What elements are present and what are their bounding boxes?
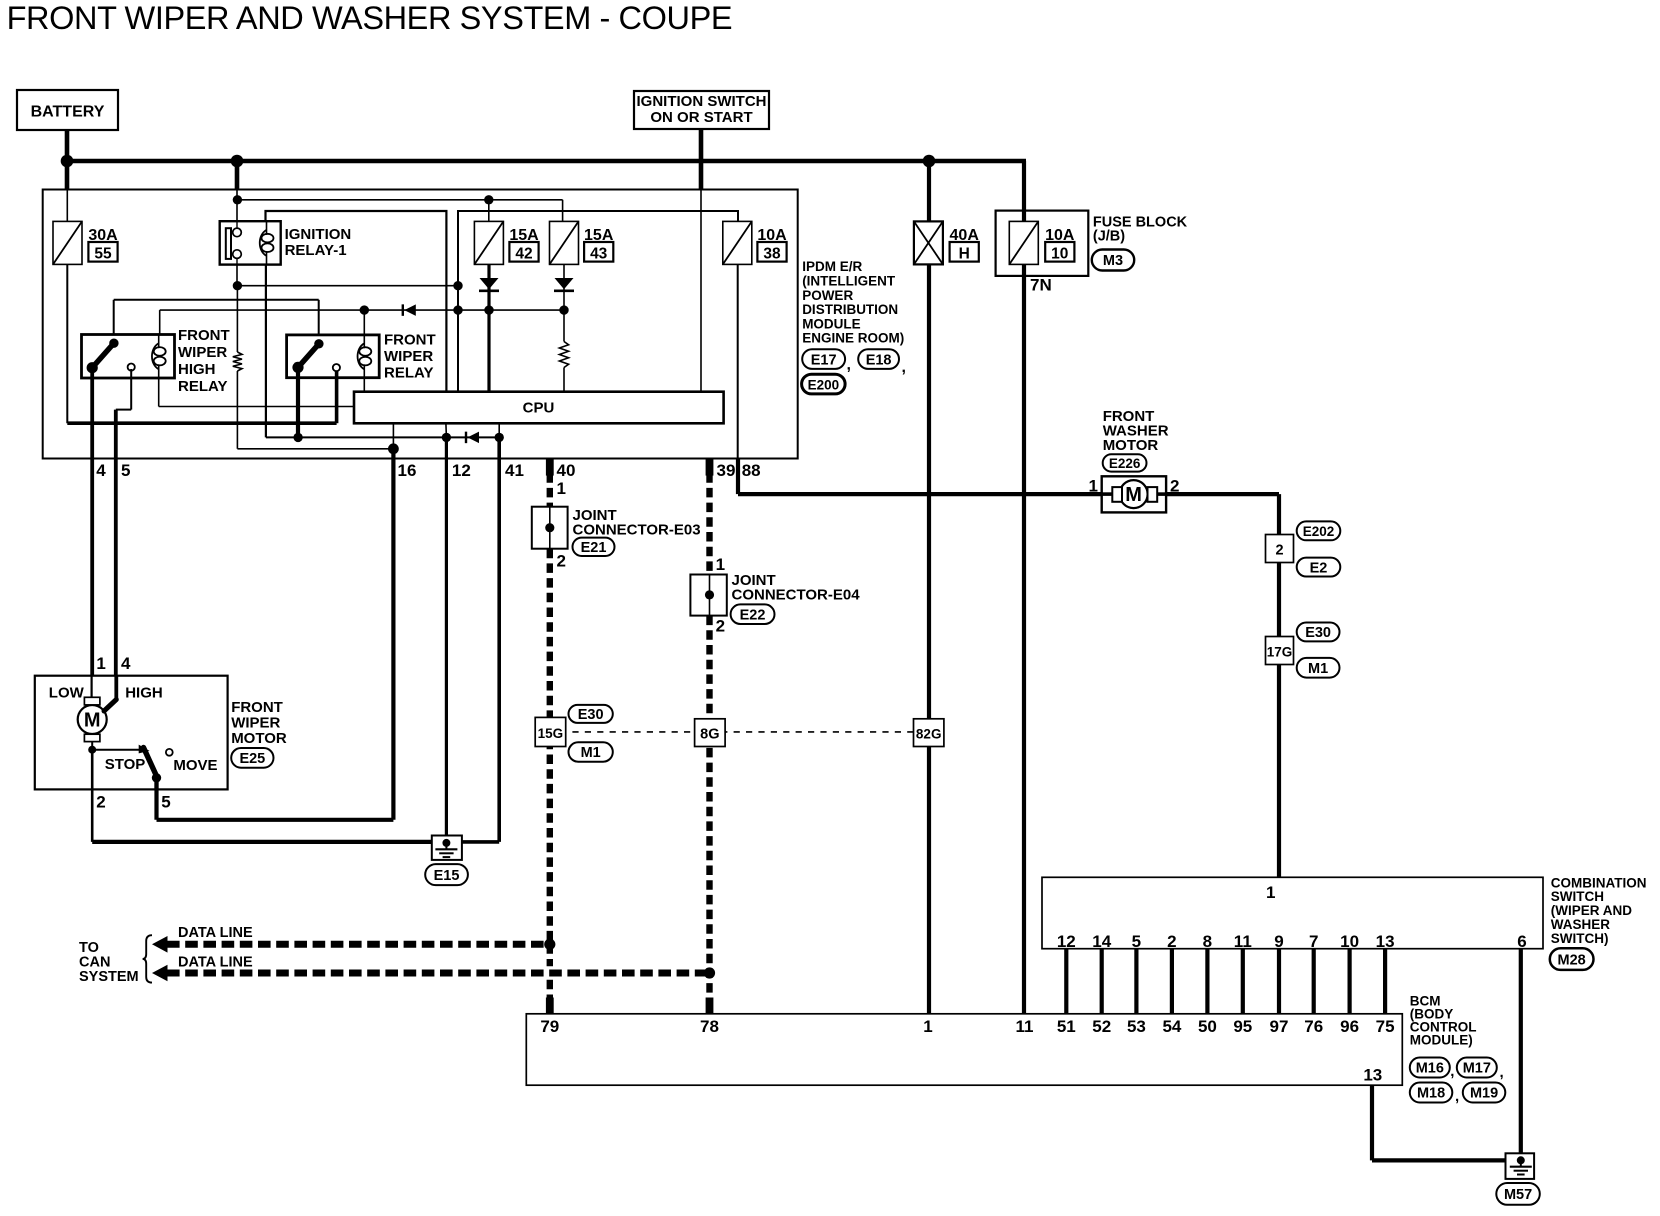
svg-text:,: , bbox=[1455, 1088, 1459, 1105]
svg-text:1: 1 bbox=[716, 555, 725, 574]
svg-text:38: 38 bbox=[763, 246, 781, 263]
svg-text:LOW: LOW bbox=[49, 685, 85, 702]
svg-text:97: 97 bbox=[1270, 1017, 1289, 1036]
svg-text:(J/B): (J/B) bbox=[1093, 229, 1125, 245]
svg-text:M18: M18 bbox=[1417, 1086, 1445, 1102]
svg-text:1: 1 bbox=[923, 1017, 932, 1036]
svg-text:E17: E17 bbox=[811, 352, 837, 368]
svg-text:CPU: CPU bbox=[523, 400, 555, 417]
svg-text:E202: E202 bbox=[1303, 524, 1335, 539]
svg-text:76: 76 bbox=[1304, 1017, 1323, 1036]
svg-text:M1: M1 bbox=[581, 745, 601, 761]
svg-text:15G: 15G bbox=[538, 726, 564, 741]
svg-text:(WIPER AND: (WIPER AND bbox=[1551, 903, 1632, 918]
svg-text:,: , bbox=[1450, 1063, 1454, 1080]
svg-text:(INTELLIGENT: (INTELLIGENT bbox=[802, 274, 896, 289]
svg-text:RELAY: RELAY bbox=[178, 378, 227, 395]
svg-text:11: 11 bbox=[1016, 1017, 1034, 1036]
svg-text:75: 75 bbox=[1376, 1017, 1395, 1036]
svg-text:MOTOR: MOTOR bbox=[231, 730, 287, 747]
svg-text:IPDM E/R: IPDM E/R bbox=[802, 259, 862, 274]
svg-text:FRONT: FRONT bbox=[384, 332, 436, 349]
svg-text:FRONT: FRONT bbox=[231, 699, 283, 716]
svg-text:5: 5 bbox=[1132, 932, 1141, 951]
svg-text:DATA LINE: DATA LINE bbox=[178, 954, 253, 970]
svg-text:M1: M1 bbox=[1308, 661, 1328, 677]
svg-text:M16: M16 bbox=[1416, 1061, 1444, 1077]
svg-text:FRONT WIPER AND WASHER SYSTEM: FRONT WIPER AND WASHER SYSTEM - COUPE bbox=[7, 0, 733, 36]
svg-text:MOVE: MOVE bbox=[173, 757, 217, 774]
svg-text:43: 43 bbox=[590, 246, 608, 263]
svg-text:14: 14 bbox=[1092, 932, 1111, 951]
svg-text:54: 54 bbox=[1162, 1017, 1181, 1036]
svg-text:TO: TO bbox=[79, 940, 99, 956]
svg-text:41: 41 bbox=[505, 461, 524, 480]
svg-text:COMBINATION: COMBINATION bbox=[1551, 875, 1647, 890]
svg-text:78: 78 bbox=[700, 1017, 719, 1036]
svg-text:11: 11 bbox=[1234, 932, 1252, 951]
svg-text:CONNECTOR-E04: CONNECTOR-E04 bbox=[732, 586, 861, 603]
svg-text:5: 5 bbox=[161, 793, 170, 812]
svg-text:E30: E30 bbox=[1305, 625, 1331, 641]
svg-text:6: 6 bbox=[1517, 932, 1526, 951]
svg-text:MODULE): MODULE) bbox=[1410, 1032, 1473, 1047]
svg-text:BATTERY: BATTERY bbox=[31, 104, 105, 121]
svg-text:12: 12 bbox=[452, 461, 471, 480]
svg-text:5: 5 bbox=[121, 461, 130, 480]
svg-text:E30: E30 bbox=[578, 707, 604, 723]
svg-text:E200: E200 bbox=[808, 377, 840, 392]
svg-text:1: 1 bbox=[1266, 883, 1275, 902]
svg-text:E226: E226 bbox=[1109, 456, 1141, 471]
svg-text:POWER: POWER bbox=[802, 288, 853, 303]
svg-text:CONNECTOR-E03: CONNECTOR-E03 bbox=[573, 521, 701, 538]
svg-text:SWITCH: SWITCH bbox=[1551, 889, 1604, 904]
svg-text:96: 96 bbox=[1340, 1017, 1359, 1036]
svg-text:MOTOR: MOTOR bbox=[1103, 437, 1159, 454]
svg-text:RELAY-1: RELAY-1 bbox=[285, 242, 347, 259]
svg-text:ON OR START: ON OR START bbox=[650, 109, 752, 126]
svg-text:H: H bbox=[959, 246, 970, 263]
svg-text:2: 2 bbox=[557, 552, 566, 571]
svg-text:E2: E2 bbox=[1310, 560, 1328, 576]
svg-text:CAN: CAN bbox=[79, 954, 110, 970]
svg-text:M19: M19 bbox=[1470, 1086, 1498, 1102]
svg-text:HIGH: HIGH bbox=[178, 361, 216, 378]
svg-text:IGNITION SWITCH: IGNITION SWITCH bbox=[637, 93, 767, 110]
svg-text:52: 52 bbox=[1092, 1017, 1111, 1036]
svg-text:13: 13 bbox=[1363, 1065, 1382, 1084]
svg-text:M3: M3 bbox=[1103, 253, 1123, 269]
svg-text:E21: E21 bbox=[581, 540, 607, 556]
svg-text:51: 51 bbox=[1057, 1017, 1076, 1036]
svg-text:RELAY: RELAY bbox=[384, 365, 433, 382]
svg-text:WIPER: WIPER bbox=[178, 344, 227, 361]
svg-text:10: 10 bbox=[1340, 932, 1359, 951]
svg-text:FRONT: FRONT bbox=[178, 327, 230, 344]
svg-text:STOP: STOP bbox=[105, 756, 146, 773]
svg-text:E15: E15 bbox=[434, 868, 460, 884]
svg-text:M: M bbox=[1125, 484, 1142, 506]
svg-text:SWITCH): SWITCH) bbox=[1551, 931, 1609, 946]
svg-text:2: 2 bbox=[1170, 477, 1179, 496]
svg-text:53: 53 bbox=[1127, 1017, 1146, 1036]
svg-text:WIPER: WIPER bbox=[231, 715, 280, 732]
svg-text:E22: E22 bbox=[740, 607, 766, 623]
svg-text:ENGINE ROOM): ENGINE ROOM) bbox=[802, 331, 904, 346]
svg-text:SYSTEM: SYSTEM bbox=[79, 969, 139, 985]
svg-text:,: , bbox=[1500, 1064, 1504, 1081]
svg-text:E25: E25 bbox=[239, 751, 265, 767]
svg-text:2: 2 bbox=[96, 793, 105, 812]
svg-text:,: , bbox=[847, 357, 851, 374]
svg-text:,: , bbox=[902, 359, 906, 376]
svg-text:50: 50 bbox=[1198, 1017, 1217, 1036]
svg-text:42: 42 bbox=[515, 246, 532, 263]
svg-text:55: 55 bbox=[94, 246, 112, 263]
svg-text:MODULE: MODULE bbox=[802, 316, 861, 331]
svg-text:95: 95 bbox=[1233, 1017, 1252, 1036]
svg-text:1: 1 bbox=[557, 479, 566, 498]
svg-text:13: 13 bbox=[1376, 932, 1395, 951]
svg-text:10: 10 bbox=[1051, 246, 1068, 263]
svg-text:8G: 8G bbox=[700, 726, 719, 742]
svg-text:IGNITION: IGNITION bbox=[285, 226, 352, 243]
svg-text:17G: 17G bbox=[1267, 645, 1293, 660]
svg-text:2: 2 bbox=[1167, 932, 1176, 951]
svg-text:7: 7 bbox=[1309, 932, 1318, 951]
svg-text:WIPER: WIPER bbox=[384, 348, 433, 365]
svg-text:2: 2 bbox=[716, 617, 725, 636]
svg-text:16: 16 bbox=[398, 461, 417, 480]
svg-text:40: 40 bbox=[557, 461, 576, 480]
svg-text:E18: E18 bbox=[866, 352, 892, 368]
svg-text:1: 1 bbox=[96, 654, 105, 673]
svg-text:4: 4 bbox=[96, 461, 106, 480]
svg-text:8: 8 bbox=[1203, 932, 1212, 951]
svg-text:WASHER: WASHER bbox=[1551, 917, 1611, 932]
svg-text:88: 88 bbox=[742, 461, 761, 480]
svg-text:M57: M57 bbox=[1504, 1187, 1532, 1203]
svg-text:4: 4 bbox=[121, 654, 131, 673]
svg-text:2: 2 bbox=[1275, 543, 1283, 559]
svg-text:39: 39 bbox=[717, 461, 736, 480]
svg-text:12: 12 bbox=[1057, 932, 1076, 951]
svg-text:M28: M28 bbox=[1558, 952, 1586, 968]
svg-text:9: 9 bbox=[1274, 932, 1283, 951]
svg-text:1: 1 bbox=[1089, 477, 1098, 496]
svg-text:HIGH: HIGH bbox=[125, 685, 163, 702]
svg-text:DATA LINE: DATA LINE bbox=[178, 925, 253, 941]
svg-text:M17: M17 bbox=[1463, 1061, 1491, 1077]
svg-text:M: M bbox=[84, 710, 101, 732]
svg-text:79: 79 bbox=[540, 1017, 559, 1036]
svg-text:DISTRIBUTION: DISTRIBUTION bbox=[802, 302, 898, 317]
svg-text:82G: 82G bbox=[916, 726, 942, 741]
svg-text:7N: 7N bbox=[1030, 276, 1052, 295]
